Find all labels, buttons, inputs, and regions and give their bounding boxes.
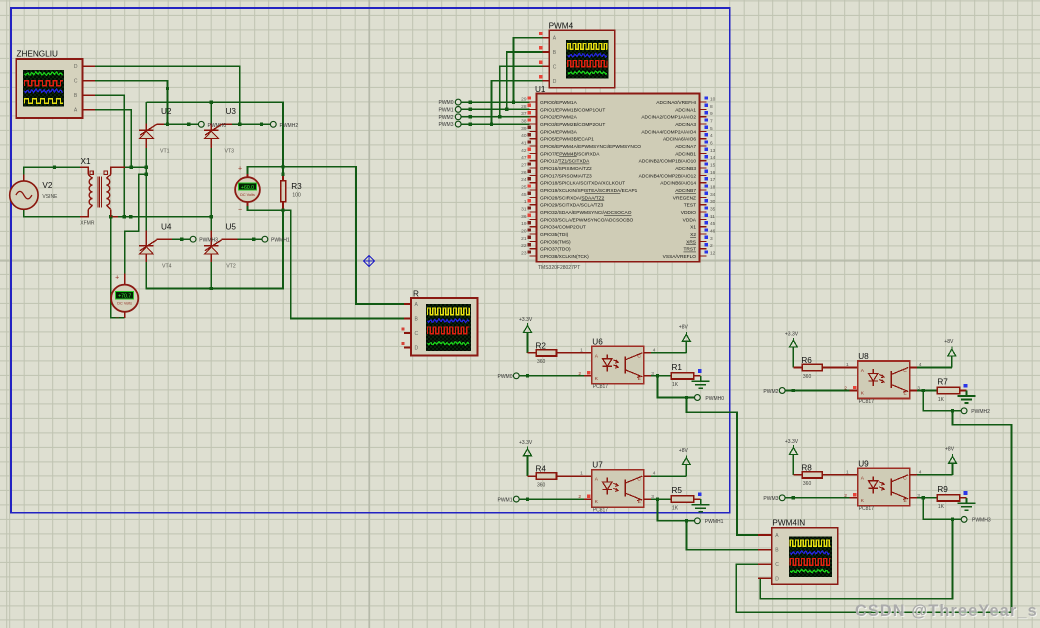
svg-text:PWMH3: PWMH3 [972, 518, 991, 524]
svg-text:XFMR: XFMR [80, 221, 95, 227]
svg-text:PWMH0: PWMH0 [705, 396, 724, 402]
svg-text:X1: X1 [690, 225, 696, 231]
svg-text:+8V: +8V [679, 325, 689, 331]
svg-text:U7: U7 [592, 461, 603, 470]
svg-text:10: 10 [710, 97, 716, 103]
svg-text:30: 30 [710, 199, 716, 205]
svg-text:TEST: TEST [684, 203, 696, 209]
svg-text:+3.3V: +3.3V [785, 332, 799, 338]
svg-text:11: 11 [710, 214, 715, 220]
svg-text:9: 9 [710, 111, 713, 117]
svg-text:VDDA: VDDA [683, 217, 697, 223]
svg-text:47: 47 [521, 155, 527, 161]
svg-text:PWM0: PWM0 [439, 100, 454, 106]
svg-text:1: 1 [846, 469, 849, 475]
svg-text:PWMH2: PWMH2 [971, 409, 990, 415]
svg-text:+3.3V: +3.3V [785, 439, 799, 445]
svg-text:PWMH3: PWMH3 [199, 238, 218, 244]
svg-text:7: 7 [710, 119, 713, 125]
svg-text:ADCINB4/COMP2B/AIO12: ADCINB4/COMP2B/AIO12 [639, 173, 697, 179]
svg-text:U9: U9 [858, 459, 869, 468]
svg-text:GPIO4/EPWM3A: GPIO4/EPWM3A [540, 129, 578, 135]
svg-text:360: 360 [537, 359, 546, 365]
svg-text:U8: U8 [858, 352, 869, 361]
svg-text:DC Volts: DC Volts [240, 193, 255, 197]
svg-text:360: 360 [803, 481, 812, 487]
svg-text:24: 24 [521, 177, 527, 183]
svg-text:ADCINA1: ADCINA1 [675, 107, 696, 113]
svg-text:R9: R9 [937, 485, 948, 494]
svg-text:−: − [115, 315, 119, 322]
svg-text:−: − [238, 207, 242, 214]
svg-text:VT3: VT3 [225, 149, 235, 155]
svg-text:D: D [553, 79, 557, 85]
svg-text:GPIO6/EPWM4A/EPWMSYNCI/EPWMSYN: GPIO6/EPWM4A/EPWMSYNCI/EPWMSYNCO [540, 144, 641, 150]
svg-text:VSSA/VREFLO: VSSA/VREFLO [663, 254, 697, 260]
svg-text:GPIO18/SPICLKA/SCITXDA/XCLKOUT: GPIO18/SPICLKA/SCITXDA/XCLKOUT [540, 181, 625, 187]
svg-text:2: 2 [578, 494, 581, 500]
svg-text:GPIO33/SCLA/EPWMSYNCO/ADCSOCBO: GPIO33/SCLA/EPWMSYNCO/ADCSOCBO [540, 217, 634, 223]
svg-text:27: 27 [521, 163, 527, 169]
svg-text:2: 2 [844, 493, 847, 499]
svg-text:+3.3V: +3.3V [519, 440, 533, 446]
svg-text:X2: X2 [690, 232, 696, 238]
svg-text:C: C [415, 331, 419, 337]
svg-text:38: 38 [521, 119, 527, 125]
svg-text:+: + [115, 275, 119, 282]
svg-text:1: 1 [580, 471, 583, 477]
svg-text:ADCINA6/AIO6: ADCINA6/AIO6 [663, 137, 696, 143]
svg-text:GPIO38/XCLKIN(TCK): GPIO38/XCLKIN(TCK) [540, 254, 589, 260]
svg-text:ADCINB3: ADCINB3 [675, 166, 696, 172]
svg-text:GPIO7/EPWM4B/SCIRXDA: GPIO7/EPWM4B/SCIRXDA [540, 151, 600, 157]
svg-text:22: 22 [521, 243, 527, 249]
svg-text:GPIO28/SCIRXDA/SDAA/TZ2: GPIO28/SCIRXDA/SDAA/TZ2 [540, 195, 605, 201]
svg-text:40: 40 [521, 133, 527, 139]
svg-text:R6: R6 [801, 356, 812, 365]
svg-text:360: 360 [803, 374, 812, 380]
svg-text:36: 36 [521, 214, 527, 220]
svg-text:PWM3: PWM3 [439, 122, 454, 128]
svg-text:19: 19 [521, 221, 527, 227]
svg-text:23: 23 [521, 251, 527, 257]
svg-text:1K: 1K [938, 504, 945, 510]
svg-text:ZHENGLIU: ZHENGLIU [17, 49, 58, 58]
svg-text:15: 15 [710, 163, 716, 169]
svg-text:GPIO16/SPISIMOA/TZ2: GPIO16/SPISIMOA/TZ2 [540, 166, 592, 172]
svg-text:VT1: VT1 [160, 149, 170, 155]
svg-text:42: 42 [521, 148, 527, 154]
svg-text:2: 2 [710, 243, 713, 249]
svg-text:PWMH1: PWMH1 [271, 238, 290, 244]
svg-text:D: D [415, 346, 419, 352]
svg-text:GPIO5/EPWM3B/ECAP1: GPIO5/EPWM3B/ECAP1 [540, 137, 594, 143]
svg-text:8: 8 [710, 104, 713, 110]
svg-text:35: 35 [710, 207, 716, 213]
svg-text:R3: R3 [291, 182, 302, 191]
svg-text:R2: R2 [536, 341, 547, 350]
svg-text:GPIO19/XCLKIN/SPISTEA/SCIRXDA/: GPIO19/XCLKIN/SPISTEA/SCIRXDA/ECAP1 [540, 188, 638, 194]
svg-text:U3: U3 [226, 107, 237, 116]
svg-text:45: 45 [710, 221, 716, 227]
svg-text:31: 31 [521, 207, 527, 213]
svg-text:C: C [74, 79, 78, 85]
svg-text:R7: R7 [937, 378, 948, 387]
svg-text:GPIO37(TDO): GPIO37(TDO) [540, 247, 571, 253]
svg-text:VT2: VT2 [226, 264, 236, 270]
svg-text:1: 1 [524, 199, 527, 205]
svg-text:VREGENZ: VREGENZ [673, 195, 696, 201]
svg-text:R4: R4 [536, 465, 547, 474]
svg-text:2: 2 [578, 371, 581, 377]
svg-text:+8V: +8V [679, 448, 689, 454]
svg-text:1K: 1K [672, 505, 679, 511]
svg-text:DC Volts: DC Volts [117, 302, 132, 306]
svg-text:1: 1 [846, 362, 849, 368]
svg-text:ADCINA7: ADCINA7 [675, 144, 696, 150]
svg-text:1K: 1K [672, 382, 679, 388]
svg-text:5: 5 [710, 126, 713, 132]
svg-text:360: 360 [537, 482, 546, 488]
svg-text:GPIO34/COMP2OUT: GPIO34/COMP2OUT [540, 225, 586, 231]
svg-text:R: R [413, 289, 419, 298]
svg-text:14: 14 [710, 155, 716, 161]
svg-text:PWM3: PWM3 [763, 496, 778, 502]
svg-text:XRS: XRS [686, 239, 696, 245]
svg-text:ADCINA2/COMP1A/AIO2: ADCINA2/COMP1A/AIO2 [641, 115, 696, 121]
svg-text:39: 39 [521, 126, 527, 132]
svg-text:R1: R1 [672, 363, 683, 372]
svg-text:6: 6 [710, 141, 713, 147]
svg-text:41: 41 [521, 141, 527, 147]
svg-text:ADCINA3: ADCINA3 [675, 122, 696, 128]
svg-text:VT4: VT4 [162, 264, 172, 270]
svg-text:+: + [238, 166, 242, 173]
svg-text:PWM2: PWM2 [439, 115, 454, 121]
svg-text:13: 13 [710, 148, 716, 154]
svg-text:GPIO0/EPWM1A: GPIO0/EPWM1A [540, 100, 578, 106]
svg-text:TMS320F28027PT: TMS320F28027PT [538, 265, 580, 271]
svg-text:TRST: TRST [683, 247, 696, 253]
svg-text:1: 1 [580, 347, 583, 353]
svg-text:X1: X1 [81, 157, 91, 166]
svg-text:12: 12 [710, 251, 716, 257]
svg-text:ADCINB6/AIO14: ADCINB6/AIO14 [660, 181, 696, 187]
svg-text:GPIO2/EPWM2A: GPIO2/EPWM2A [540, 115, 578, 121]
svg-text:46: 46 [710, 229, 716, 235]
svg-text:GPIO17/SPISOMIA/TZ3: GPIO17/SPISOMIA/TZ3 [540, 173, 592, 179]
svg-text:GPIO3/EPWM2B/COMP2OUT: GPIO3/EPWM2B/COMP2OUT [540, 122, 605, 128]
svg-text:CSDN @ThreeYear_s: CSDN @ThreeYear_s [855, 602, 1038, 620]
svg-text:GPIO1/EPWM1B/COMP1OUT: GPIO1/EPWM1B/COMP1OUT [540, 107, 605, 113]
svg-text:U2: U2 [161, 107, 172, 116]
svg-text:PC817: PC817 [593, 384, 609, 390]
svg-text:C: C [775, 562, 779, 568]
svg-text:PWM1: PWM1 [439, 107, 454, 113]
svg-text:25: 25 [521, 185, 527, 191]
svg-text:ADCINB2/COMP1B/AIO10: ADCINB2/COMP1B/AIO10 [639, 159, 697, 165]
svg-text:+3.3V: +3.3V [519, 317, 533, 323]
svg-text:PWM4IN: PWM4IN [772, 519, 805, 528]
svg-text:4: 4 [710, 133, 713, 139]
svg-text:ADCINB7: ADCINB7 [675, 188, 696, 194]
svg-text:GPIO35(TDI): GPIO35(TDI) [540, 232, 569, 238]
svg-text:28: 28 [521, 104, 527, 110]
svg-text:26: 26 [521, 170, 527, 176]
svg-text:GPIO32/SDAA/EPWMSYNCI/ADCSOCAO: GPIO32/SDAA/EPWMSYNCI/ADCSOCAO [540, 210, 632, 216]
svg-text:29: 29 [521, 97, 527, 103]
svg-text:+60.0: +60.0 [241, 185, 254, 191]
svg-text:D: D [775, 576, 779, 582]
svg-text:PC817: PC817 [859, 506, 875, 512]
svg-text:PWM2: PWM2 [763, 389, 778, 395]
svg-text:D: D [74, 64, 78, 70]
svg-text:VDDIO: VDDIO [681, 210, 696, 216]
svg-text:100: 100 [292, 193, 301, 199]
svg-text:R8: R8 [801, 463, 812, 472]
svg-text:34: 34 [710, 192, 716, 198]
svg-text:U5: U5 [226, 223, 237, 232]
svg-text:37: 37 [521, 111, 527, 117]
svg-text:PWM1: PWM1 [498, 497, 513, 503]
svg-text:R5: R5 [672, 486, 683, 495]
svg-text:+8V: +8V [944, 339, 954, 345]
svg-text:PWMH1: PWMH1 [705, 519, 724, 525]
svg-text:1K: 1K [938, 397, 945, 403]
svg-text:PWM0: PWM0 [498, 374, 513, 380]
svg-text:21: 21 [521, 236, 527, 242]
svg-text:VSINE: VSINE [42, 194, 58, 200]
svg-text:PC817: PC817 [859, 399, 875, 405]
svg-text:ADCINB1: ADCINB1 [675, 151, 696, 157]
svg-text:20: 20 [521, 229, 527, 235]
svg-text:PWMH2: PWMH2 [280, 123, 299, 129]
svg-text:GPIO12/TZ1/SCITXDA: GPIO12/TZ1/SCITXDA [540, 159, 590, 165]
svg-text:GPIO29/SCITXDA/SCLA/TZ3: GPIO29/SCITXDA/SCLA/TZ3 [540, 203, 604, 209]
svg-text:ADCINA0/VREFHI: ADCINA0/VREFHI [656, 100, 696, 106]
svg-text:17: 17 [710, 177, 716, 183]
svg-text:ADCINA4/COMP2A/AIO4: ADCINA4/COMP2A/AIO4 [641, 129, 696, 135]
svg-text:C: C [553, 64, 557, 70]
svg-text:U6: U6 [592, 337, 603, 346]
svg-text:U4: U4 [161, 223, 172, 232]
svg-text:+8V: +8V [945, 447, 955, 453]
svg-text:2: 2 [844, 386, 847, 392]
svg-text:V2: V2 [42, 181, 52, 190]
svg-text:+70.7: +70.7 [118, 293, 131, 299]
svg-text:PC817: PC817 [593, 507, 609, 513]
svg-text:GPIO36(TMS): GPIO36(TMS) [540, 239, 571, 245]
svg-text:16: 16 [710, 170, 716, 176]
svg-text:18: 18 [710, 185, 716, 191]
svg-text:45: 45 [521, 192, 527, 198]
svg-text:U1: U1 [535, 85, 546, 94]
svg-text:3: 3 [710, 236, 713, 242]
